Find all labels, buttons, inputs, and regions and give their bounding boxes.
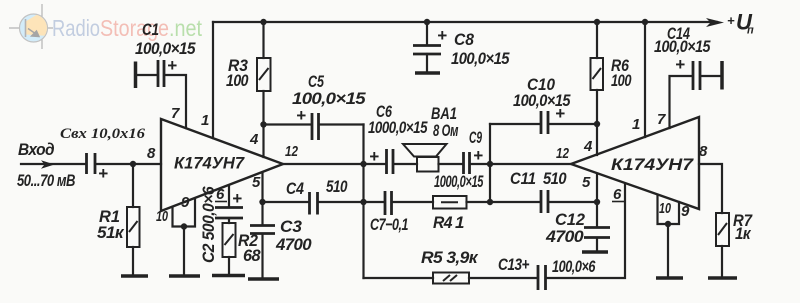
svg-text:+: +: [369, 147, 379, 166]
ground bar R7: [708, 276, 737, 280]
svg-text:C3: C3: [280, 217, 303, 236]
wire: C9 to right apex: [470, 163, 571, 165]
resistor R7: [716, 213, 729, 246]
svg-text:+: +: [675, 55, 685, 74]
wire: C11 row: [490, 201, 541, 203]
wire: C8 branch: [426, 22, 428, 45]
ground bar C8: [415, 71, 440, 75]
capacitor C13: [538, 265, 546, 290]
svg-text:12: 12: [285, 143, 299, 160]
svg-text:+: +: [232, 189, 242, 208]
svg-text:8: 8: [147, 145, 156, 162]
svg-text:68: 68: [243, 246, 261, 265]
wire: +Un top supply rail: [213, 21, 717, 23]
svg-text:4: 4: [249, 131, 259, 148]
svg-text:1000,0×15: 1000,0×15: [368, 118, 428, 137]
wire: pin1 right IC to rail: [644, 22, 646, 137]
capacitor C14: [693, 61, 700, 90]
svg-text:7: 7: [171, 105, 180, 122]
capacitor C5: [312, 113, 319, 140]
wire: R3 branch rail to pin4: [262, 22, 264, 58]
svg-text:100: 100: [611, 71, 632, 90]
svg-text:Свх 10,0х16: Свх 10,0х16: [60, 126, 146, 142]
svg-text:+: +: [98, 164, 108, 183]
terminal bar C1: [134, 62, 138, 89]
svg-text:К174УН7: К174УН7: [611, 155, 695, 174]
svg-text:+: +: [296, 106, 306, 125]
capacitor C6: [387, 149, 394, 174]
svg-text:C7−0,1: C7−0,1: [370, 215, 408, 234]
svg-text:4700: 4700: [545, 227, 584, 246]
svg-text:10: 10: [156, 208, 168, 225]
svg-text:50...70 мВ: 50...70 мВ: [17, 171, 75, 190]
supply arrow: [706, 18, 724, 27]
svg-text:1к: 1к: [735, 224, 752, 243]
node dots: [130, 19, 671, 230]
input arrow: [41, 160, 55, 168]
svg-text:C9: C9: [469, 128, 482, 147]
svg-text:1: 1: [201, 112, 209, 129]
svg-text:9: 9: [181, 194, 190, 211]
svg-text:1000,0×15: 1000,0×15: [434, 172, 484, 191]
svg-text:+: +: [555, 104, 565, 123]
svg-text:8: 8: [699, 143, 708, 160]
svg-text:R5 3,9к: R5 3,9к: [421, 248, 479, 267]
wire: C10 link: [490, 123, 540, 125]
wire: C4 row: [263, 201, 309, 203]
wire: pin5 right node: [596, 175, 598, 226]
svg-text:+: +: [727, 13, 735, 28]
wire: output line left IC: [283, 163, 386, 165]
wire: pin1 left IC to rail: [212, 22, 214, 138]
svg-text:C11: C11: [510, 169, 536, 188]
resistor R5: [433, 273, 469, 284]
svg-text:R4: R4: [433, 213, 453, 232]
svg-text:12: 12: [556, 145, 570, 162]
svg-text:5: 5: [582, 174, 591, 191]
svg-text:100,0×6: 100,0×6: [552, 257, 596, 276]
svg-text:51к: 51к: [97, 223, 125, 242]
resistor R1: [127, 207, 140, 247]
capacitor C12: [584, 228, 610, 238]
capacitor Cvx input: [87, 153, 96, 174]
svg-text:8 Ом: 8 Ом: [433, 121, 459, 140]
wire: pin8 right output to R7: [699, 164, 722, 213]
wire: C1 to pin7 left: [136, 74, 158, 76]
svg-text:510: 510: [326, 177, 348, 196]
svg-text:C4: C4: [286, 179, 304, 198]
wire: pin7 right to C14: [670, 76, 693, 128]
ground bar R1: [121, 274, 148, 278]
speaker BA1: [403, 144, 447, 172]
svg-text:10: 10: [659, 200, 671, 217]
svg-text:4700: 4700: [275, 235, 312, 254]
capacitor C8: [413, 46, 441, 55]
wire: feedback bottom line: [364, 277, 434, 279]
wire: pin5 left node: [261, 173, 263, 224]
wire: input line: [21, 163, 86, 165]
wire: C5 link: [264, 123, 312, 125]
wire: pin6 left to C2: [228, 186, 230, 206]
svg-text:6: 6: [613, 186, 622, 203]
svg-text:C2 500,0×6: C2 500,0×6: [199, 186, 218, 263]
svg-text:К174УН7: К174УН7: [174, 154, 245, 173]
svg-text:+: +: [167, 56, 177, 75]
terminal bar C14: [720, 61, 724, 90]
svg-text:+: +: [437, 26, 447, 45]
wire: C7 R4 row: [364, 201, 385, 203]
wire: pins 10,9 right staple: [658, 195, 680, 224]
ground bar pins 10,9 right: [656, 276, 683, 280]
svg-text:4: 4: [583, 138, 593, 155]
watermark logo: [9, 4, 203, 49]
svg-text:+: +: [473, 146, 483, 165]
svg-text:C13+: C13+: [498, 255, 530, 274]
svg-text:510: 510: [543, 169, 567, 188]
svg-text:7: 7: [657, 111, 666, 128]
svg-text:100,0×15: 100,0×15: [654, 37, 711, 56]
wire: vertical node line x490: [489, 124, 491, 202]
svg-text:C8: C8: [454, 30, 474, 49]
ground bar C3: [248, 277, 279, 281]
capacitor C1: [158, 60, 164, 87]
op-amp U2 K174UN7 right: [571, 117, 699, 209]
svg-text:9: 9: [681, 203, 690, 220]
capacitor C3: [250, 226, 275, 234]
capacitor C4: [310, 192, 318, 215]
svg-text:100: 100: [226, 71, 249, 90]
svg-text:100,0×15: 100,0×15: [451, 49, 510, 68]
svg-text:Вход: Вход: [18, 140, 54, 159]
svg-text:п: п: [747, 25, 754, 37]
wire: R6 branch rail to pin4 right: [596, 22, 598, 58]
capacitor C9: [464, 152, 470, 174]
capacitor C7: [385, 191, 392, 215]
svg-text:1: 1: [455, 213, 464, 232]
resistor R6: [591, 58, 604, 90]
svg-text:C1: C1: [142, 20, 159, 39]
svg-text:1: 1: [632, 116, 640, 133]
svg-text:5: 5: [252, 174, 261, 191]
resistor R4: [433, 196, 467, 209]
ground bar R2 C2: [212, 274, 245, 278]
wire: pins 9,10 left staple: [173, 199, 196, 227]
wire: vertical node line x363: [362, 125, 364, 279]
capacitor C11: [541, 190, 548, 213]
capacitor C10: [541, 111, 548, 134]
wire: C6 to speaker: [394, 163, 418, 165]
wire: speaker to C9: [439, 163, 464, 165]
resistor R2: [223, 223, 236, 257]
wire: R1 branch: [132, 164, 134, 207]
svg-text:100,0×15: 100,0×15: [135, 39, 196, 58]
svg-text:RadioStorage.net: RadioStorage.net: [52, 15, 203, 41]
ground bar C12: [582, 250, 608, 254]
ground bar pins 9,10 left: [169, 274, 200, 278]
op-amp U1 K174UN7 left: [161, 119, 283, 211]
capacitor C2: [215, 208, 243, 219]
resistor R3: [257, 58, 271, 91]
